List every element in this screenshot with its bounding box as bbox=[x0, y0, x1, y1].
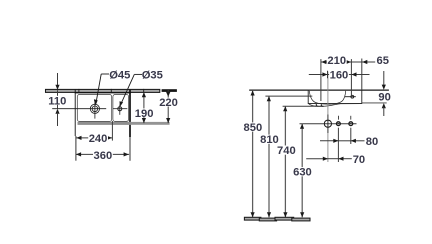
svg-text:630: 630 bbox=[293, 167, 312, 179]
svg-text:Ø35: Ø35 bbox=[142, 70, 163, 82]
svg-text:110: 110 bbox=[48, 95, 66, 107]
svg-text:90: 90 bbox=[378, 92, 390, 104]
svg-text:850: 850 bbox=[244, 122, 263, 134]
svg-text:190: 190 bbox=[135, 108, 154, 120]
svg-text:240: 240 bbox=[89, 133, 108, 145]
svg-text:160: 160 bbox=[330, 70, 349, 82]
svg-text:210: 210 bbox=[327, 55, 346, 67]
svg-text:740: 740 bbox=[277, 145, 296, 157]
svg-text:360: 360 bbox=[94, 150, 113, 162]
svg-text:220: 220 bbox=[159, 97, 178, 109]
svg-text:Ø45: Ø45 bbox=[109, 70, 130, 82]
svg-text:80: 80 bbox=[366, 136, 378, 148]
svg-text:70: 70 bbox=[353, 154, 365, 166]
svg-text:810: 810 bbox=[260, 134, 279, 146]
svg-text:65: 65 bbox=[377, 55, 389, 67]
